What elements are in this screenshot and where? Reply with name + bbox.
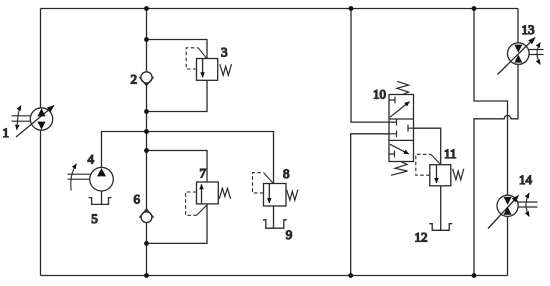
relief valve 7 (186, 166, 231, 216)
svg-text:12: 12 (415, 230, 428, 245)
tank 9 (263, 220, 292, 242)
pump 4 (fixed displacement) (68, 152, 114, 192)
junction node bottom net B (472, 273, 477, 278)
wire valve 8 to tank 9 (273, 206, 275, 228)
wire motor 13 top (517, 9, 519, 44)
check valve 2 (131, 72, 154, 87)
relief valve 8 (253, 166, 298, 206)
relief valve 3 (186, 45, 231, 81)
wire relief valve 3 outlet branch (147, 80, 208, 111)
wire valve 10 upper left port (351, 9, 389, 123)
wire top bus (41, 8, 519, 10)
junction node valve7 outlet (144, 241, 149, 246)
svg-text:9: 9 (286, 227, 293, 242)
wire relief valve 7 outlet branch (147, 204, 208, 244)
junction node valve7 inlet (144, 148, 149, 153)
wire valve 11 to tank 12 (440, 186, 442, 230)
svg-text:2: 2 (131, 72, 138, 87)
junction node valve3 outlet (144, 109, 149, 114)
junction node bottom center (144, 273, 149, 278)
svg-text:7: 7 (200, 166, 207, 181)
junction node valve3 inlet (144, 37, 149, 42)
junction node top-center (144, 6, 149, 11)
svg-text:3: 3 (221, 45, 228, 60)
motor 13 (variable, bidirectional) (498, 22, 544, 75)
wire net A top to motor 14 (474, 9, 508, 196)
directional valve 10 (3-position, spring centered) (373, 81, 414, 175)
junction node top valve10 (349, 6, 354, 11)
wire motor 14 bottom (507, 216, 509, 275)
junction node cross line (144, 129, 149, 134)
wire motor 13 bottom crossover with hop (474, 65, 518, 276)
junction node bottom valve10 (348, 273, 353, 278)
tank 5 (89, 198, 112, 226)
wire cross line to pump 4 and valve 8 (102, 132, 274, 184)
junction node top net A (472, 6, 477, 11)
wire pump 4 to tank 5 (101, 191, 103, 204)
pump 1 (variable displacement, bidirectional) (3, 106, 55, 141)
wire valve 10 right port to valve 11 (414, 128, 441, 165)
tank 12 (415, 224, 453, 245)
wire valve 10 lower left port (351, 134, 389, 276)
svg-text:11: 11 (444, 146, 457, 161)
wire bottom bus (41, 275, 508, 277)
wire relief valve 3 inlet branch (147, 40, 208, 59)
motor 14 (variable, bidirectional) (488, 172, 537, 229)
svg-text:5: 5 (91, 211, 98, 226)
svg-text:10: 10 (373, 87, 386, 102)
svg-text:14: 14 (519, 172, 533, 187)
relief valve 11 (416, 146, 464, 186)
svg-text:6: 6 (134, 192, 141, 207)
svg-text:13: 13 (522, 22, 535, 37)
svg-text:1: 1 (3, 125, 10, 140)
svg-text:8: 8 (283, 166, 290, 181)
check valve 6 (134, 192, 154, 223)
wire left vertical (pump 1 line) (40, 9, 42, 276)
wire relief valve 7 inlet branch (147, 151, 208, 183)
svg-text:4: 4 (88, 152, 95, 167)
wire center vertical (146, 9, 148, 276)
